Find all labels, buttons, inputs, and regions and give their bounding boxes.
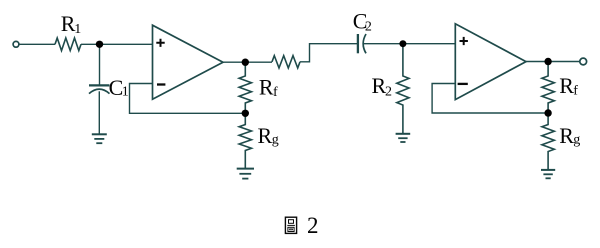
svg-text:R: R bbox=[559, 123, 574, 148]
svg-text:g: g bbox=[573, 133, 580, 148]
svg-text:2: 2 bbox=[307, 213, 319, 238]
svg-text:2: 2 bbox=[365, 20, 372, 35]
svg-text:R: R bbox=[258, 123, 273, 148]
svg-text:f: f bbox=[573, 84, 578, 99]
svg-text:R: R bbox=[259, 75, 274, 100]
svg-text:2: 2 bbox=[385, 85, 392, 100]
svg-text:f: f bbox=[273, 85, 278, 100]
svg-text:g: g bbox=[272, 133, 279, 148]
svg-text:1: 1 bbox=[122, 84, 129, 99]
svg-text:R: R bbox=[559, 73, 574, 98]
svg-text:1: 1 bbox=[74, 22, 81, 37]
